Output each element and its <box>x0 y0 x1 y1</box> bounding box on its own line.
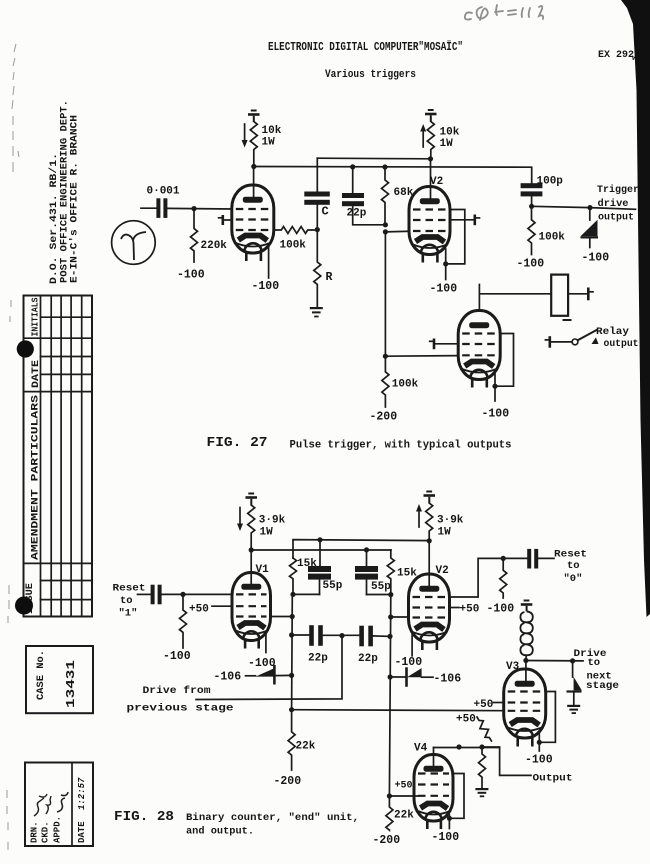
wire rail A to V2 anode <box>317 157 430 160</box>
node reset-0 <box>501 556 506 561</box>
wire 100p stem <box>531 195 533 206</box>
V1 cathode <box>238 623 265 628</box>
resistor 220k grid leak <box>191 209 198 262</box>
node right column top <box>388 592 393 597</box>
node V2 anode <box>427 538 432 543</box>
node divider top <box>479 744 484 749</box>
wire trigger output <box>532 206 636 209</box>
wire V2 cathode lead <box>445 249 447 280</box>
svg-text:"0": "0" <box>564 573 583 585</box>
wire reset-0 out <box>539 557 555 559</box>
svg-text:and output.: and output. <box>186 826 254 838</box>
resistor 3.9k 1W (V2 anode load) <box>426 503 433 541</box>
node V3 drive <box>383 354 388 359</box>
svg-text:100k: 100k <box>280 240 307 252</box>
svg-text:3·9k: 3·9k <box>437 515 464 527</box>
capacitor reset-0 <box>527 549 538 569</box>
svg-text:E-IN-C's OFFICE R. BRANCH: E-IN-C's OFFICE R. BRANCH <box>69 115 81 283</box>
svg-text:w: w <box>632 54 637 63</box>
svg-text:AMENDMENT PARTICULARS: AMENDMENT PARTICULARS <box>30 395 42 560</box>
V3 grid row 1 <box>508 690 542 692</box>
capacitor reset-1 <box>151 585 162 605</box>
left edge scan marks <box>7 44 19 850</box>
wire left column <box>291 595 294 710</box>
svg-text:to: to <box>567 560 580 572</box>
APPD signature <box>57 792 68 812</box>
svg-text:FIG. 27: FIG. 27 <box>207 436 268 451</box>
wire 22p row right <box>373 635 390 638</box>
V3 grid row 3 <box>508 710 542 712</box>
V1 grid row 1 <box>236 208 270 210</box>
V4 heater <box>425 812 441 820</box>
node V2 grid join <box>388 614 393 619</box>
resistor 3.9k 1W (V1 anode load) <box>248 505 255 550</box>
svg-text:FIG. 28: FIG. 28 <box>114 810 174 825</box>
wire rail A' cross-coupling to V2 anode <box>293 540 429 558</box>
V1 heater pins <box>246 253 261 262</box>
amendment table frame <box>24 296 93 617</box>
svg-text:-100: -100 <box>432 831 460 844</box>
V1 bias tap symbol <box>219 215 232 225</box>
resistor reset-0 leak <box>500 558 507 598</box>
wire long drive to V3 grid <box>292 710 504 711</box>
svg-text:3·9k: 3·9k <box>259 515 286 527</box>
svg-text:-106: -106 <box>214 671 242 684</box>
wire +50 V3 <box>494 702 504 704</box>
node V3 cathode <box>492 384 497 389</box>
wire V2 output to reset-0 <box>450 558 528 597</box>
resistor 22k left tail <box>288 710 295 770</box>
node X1 <box>315 227 320 232</box>
svg-text:22p: 22p <box>358 653 378 665</box>
svg-text:22p: 22p <box>308 653 328 665</box>
node V4 cathode <box>447 816 452 821</box>
node input <box>191 206 196 211</box>
node V1 anode <box>251 164 256 169</box>
trigger glyph inside circle <box>121 232 146 260</box>
svg-text:INITIALS: INITIALS <box>31 297 41 337</box>
svg-text:previous stage: previous stage <box>127 703 234 715</box>
svg-text:stage: stage <box>586 680 619 692</box>
svg-text:10k: 10k <box>262 125 282 137</box>
svg-text:-100: -100 <box>482 408 510 421</box>
node trigger output <box>587 205 592 210</box>
capacitor 22p right <box>359 626 373 647</box>
wire V4 anode run <box>434 747 500 749</box>
DRN signature <box>34 794 47 816</box>
contact lever <box>578 330 597 341</box>
svg-text:"1": "1" <box>119 608 138 620</box>
V1 anode bar <box>241 584 261 590</box>
V3 grid row 2 <box>462 343 496 345</box>
V2 anode bar <box>420 198 440 204</box>
triode V3 envelope (output valve) <box>458 311 500 380</box>
capacitor 55p left <box>308 566 331 580</box>
V4 grid row 1 <box>418 772 449 774</box>
HT supply symbol (V2 branch) <box>424 491 436 503</box>
resistor 10k 1W (V2 anode load) <box>427 122 434 159</box>
contact arrowhead <box>592 337 599 344</box>
ground under divider <box>475 788 488 797</box>
node V2 cathode <box>443 261 448 266</box>
punch hole bottom <box>15 597 33 615</box>
relay contact fixed tap symbol <box>545 336 549 348</box>
wire to V2 grid <box>391 616 409 618</box>
svg-text:+50: +50 <box>474 699 494 711</box>
input wire left <box>141 207 156 209</box>
V2 grid row 2 <box>413 219 446 221</box>
V1 grid row 3 <box>236 229 270 231</box>
wire to contact <box>550 341 572 343</box>
wire V3 cathode lead <box>494 374 496 402</box>
punch hole top <box>17 340 34 357</box>
current arrow (down) <box>242 124 248 148</box>
svg-text:V4: V4 <box>414 743 428 755</box>
V4 anode bar <box>424 766 444 772</box>
node drive junction <box>289 707 294 712</box>
resistor 10k 1W (V1 anode load) <box>250 122 257 167</box>
V3 heater pins <box>518 738 533 747</box>
svg-text:1W: 1W <box>440 138 454 150</box>
wire V4 grid <box>389 795 418 797</box>
svg-text:APPD.: APPD. <box>53 816 63 843</box>
diode -106 right <box>390 667 433 687</box>
svg-text:Trigger: Trigger <box>597 184 639 196</box>
svg-text:-100: -100 <box>163 650 191 663</box>
wire to drive next stage <box>526 660 583 662</box>
resistor diagonal to +50 <box>474 715 494 743</box>
wire rail B from V1 anode to 100p <box>254 167 532 184</box>
node 55p right top <box>364 547 369 552</box>
svg-text:22p: 22p <box>347 208 367 220</box>
wire C stems <box>316 158 318 229</box>
svg-text:DATE: DATE <box>31 360 42 388</box>
svg-text:10k: 10k <box>440 127 460 139</box>
svg-text:-100: -100 <box>525 754 553 767</box>
wire 22p row left <box>292 634 360 636</box>
right edge scan bar <box>621 0 650 617</box>
svg-text:-100: -100 <box>395 656 423 669</box>
current arrow (up) <box>416 504 422 527</box>
resistor output divider <box>479 747 486 788</box>
wire V4 screen loop <box>449 774 464 819</box>
V3 heater pins <box>472 379 487 388</box>
V3 anode bar <box>515 681 535 687</box>
wire V3 screen loop <box>539 692 555 743</box>
V1 grid row 2 <box>236 605 267 607</box>
svg-text:output: output <box>604 338 639 350</box>
V4 cathode <box>421 804 448 809</box>
wire +50 to V1 <box>212 605 232 607</box>
V1 grid row 1 <box>236 593 267 595</box>
wire V3 screen loop <box>495 334 514 387</box>
svg-text:EX 292: EX 292 <box>598 49 634 61</box>
resistor 100k coupling (V1 grid3) <box>274 227 317 234</box>
svg-text:DRN.: DRN. <box>30 821 40 843</box>
relay coil <box>551 275 568 316</box>
node V1 anode <box>249 547 254 552</box>
wire V2 anode stem <box>428 541 430 587</box>
wire V2 anode stem <box>430 159 432 200</box>
relay minus mark <box>563 319 572 321</box>
wire drive from previous stage <box>196 636 342 700</box>
svg-text:Binary counter, "end" unit,: Binary counter, "end" unit, <box>186 812 359 824</box>
triode V3 envelope <box>504 669 546 738</box>
triode V4 envelope <box>414 755 453 822</box>
V1 grid row 3 <box>236 615 267 617</box>
triode V2 envelope <box>409 187 450 255</box>
svg-text:1W: 1W <box>262 137 276 149</box>
V3 heater <box>470 370 487 379</box>
wire reset input <box>138 593 151 595</box>
wire V4 cathode lead <box>448 815 450 829</box>
wire to V1 grid <box>271 616 293 618</box>
svg-text:-106: -106 <box>434 673 462 686</box>
svg-text:to: to <box>120 595 133 607</box>
diode clamp (trigger output) <box>581 208 599 248</box>
node 22p top <box>350 164 355 169</box>
node 68k bottom <box>383 222 388 227</box>
wire V2 cathode lead <box>411 635 413 656</box>
wire 55p right stems <box>366 550 368 595</box>
svg-text:-100: -100 <box>517 258 545 271</box>
svg-text:22k: 22k <box>394 810 414 822</box>
V1 cathode <box>238 236 267 241</box>
diode -106 left <box>246 665 292 685</box>
svg-text:+50: +50 <box>456 714 476 726</box>
triode V1 envelope <box>232 185 274 253</box>
V3 heater <box>516 729 533 738</box>
wire output tap <box>482 747 531 775</box>
handwritten pencil note c84-112 <box>465 5 543 20</box>
V4 heater pins <box>427 821 441 830</box>
svg-text:Drive from: Drive from <box>143 685 211 697</box>
node V1 grid join <box>290 614 295 619</box>
capacitor 22p left <box>309 625 323 646</box>
V3 grid row 2 <box>508 701 542 703</box>
svg-text:15k: 15k <box>397 568 417 580</box>
ground under R <box>310 307 323 317</box>
wire 22p stems <box>353 167 386 225</box>
svg-text:220k: 220k <box>201 240 228 252</box>
svg-text:-100: -100 <box>248 657 276 670</box>
svg-text:-200: -200 <box>370 411 398 424</box>
wire 15k/55p right bottom join <box>367 594 391 596</box>
resistor 15k left <box>290 558 297 594</box>
V3 anode bar <box>469 322 489 328</box>
node diode right <box>388 674 393 679</box>
CKD signature <box>46 796 51 814</box>
wire drive to V3 grid <box>385 355 458 358</box>
V3 grid row 1 <box>462 332 496 334</box>
svg-text:100p: 100p <box>537 176 564 188</box>
node V3 cathode <box>537 740 542 745</box>
V3 cathode <box>510 720 539 725</box>
svg-text:-100: -100 <box>487 603 515 616</box>
node reset-1 <box>180 592 185 597</box>
current arrow (up) <box>420 124 426 147</box>
node V2 grid junction <box>383 229 388 234</box>
svg-text:-100: -100 <box>430 283 458 296</box>
diode next stage <box>567 661 582 705</box>
wire V3 cathode lead <box>538 734 540 752</box>
svg-text:22k: 22k <box>296 741 316 753</box>
HT supply symbol (V1 branch) <box>246 493 258 505</box>
node drive next <box>570 658 575 663</box>
V3 cathode <box>465 362 494 367</box>
wire +50 V2 <box>450 607 460 609</box>
wire V3 anode to relay <box>479 285 551 311</box>
wire column to V3 grid node <box>384 232 386 356</box>
V1 grid row 2 <box>236 218 270 220</box>
V2 heater pins <box>422 642 437 651</box>
V1 anode bar <box>243 197 263 203</box>
svg-text:CKD.: CKD. <box>41 821 51 843</box>
wire 55p left stems <box>319 540 322 595</box>
capacitor 55p right <box>355 566 378 580</box>
V4 grid row 2 <box>418 783 449 785</box>
wire V1 cathode lead <box>265 634 267 653</box>
wire 15k/55p left bottom join <box>293 593 320 595</box>
svg-text:1W: 1W <box>260 527 274 539</box>
V2 bias tap symbol <box>450 215 480 226</box>
input symbol circle <box>112 221 156 265</box>
node 55p left top <box>317 537 322 542</box>
HT supply symbol over R 10k (V1 branch) <box>248 110 260 122</box>
relay supply tap symbol <box>588 288 593 301</box>
wire right column <box>389 595 390 796</box>
wire relay to supply tap <box>568 293 587 295</box>
V2 heater <box>421 245 438 254</box>
svg-text:-100: -100 <box>177 269 205 282</box>
svg-text:-100: -100 <box>582 252 610 265</box>
node diode left <box>289 673 294 678</box>
capacitor 22p <box>342 193 364 206</box>
resistor 100k trigger load <box>528 206 535 254</box>
V2 grid row 3 <box>413 230 446 232</box>
contact pivot circle <box>572 339 578 345</box>
V2 grid row 2 <box>413 606 446 608</box>
resistor 15k right <box>387 550 394 595</box>
svg-text:ELECTRONIC DIGITAL COMPUTER"MO: ELECTRONIC DIGITAL COMPUTER"MOSAÏC" <box>268 41 463 54</box>
capacitor 0.001 input <box>156 198 167 218</box>
svg-text:Various triggers: Various triggers <box>325 69 416 81</box>
node left column top <box>290 592 295 597</box>
svg-text:-200: -200 <box>373 834 401 847</box>
svg-text:55p: 55p <box>371 581 391 593</box>
approvals box <box>25 763 93 847</box>
case number box <box>26 646 93 713</box>
node V2 anode <box>428 156 433 161</box>
node trigger <box>529 204 534 209</box>
svg-text:Output: Output <box>533 773 573 785</box>
V2 heater pins <box>423 254 438 263</box>
wire V4 anode stem <box>433 748 435 768</box>
V2 heater <box>420 632 437 641</box>
V2 anode bar <box>419 586 439 592</box>
svg-text:DATE: DATE <box>77 821 87 843</box>
resistor 68k <box>382 167 389 225</box>
V2 grid row 3 <box>413 616 446 618</box>
V1 heater <box>243 631 259 639</box>
node 22p row right <box>387 634 392 639</box>
V4 grid row 3 <box>418 795 449 797</box>
svg-text:1W: 1W <box>438 527 452 539</box>
V3 grid row 3 <box>462 354 496 356</box>
svg-text:-100: -100 <box>252 280 280 293</box>
svg-text:to: to <box>588 657 601 669</box>
wire cap to V1 grid <box>162 593 232 595</box>
node V4 grid <box>387 793 392 798</box>
V2 cathode <box>416 237 445 242</box>
resistor 100k tail <box>382 356 389 407</box>
V2 grid row 1 <box>413 596 446 598</box>
node 22p row mid <box>339 633 344 638</box>
svg-text:CASE No.: CASE No. <box>35 650 47 700</box>
svg-text:100k: 100k <box>392 379 419 391</box>
V1 heater <box>244 243 261 252</box>
svg-text:100k: 100k <box>539 232 566 244</box>
node V4 anode <box>456 744 461 749</box>
svg-text:1:2:57: 1:2:57 <box>77 777 87 810</box>
wire V2 screen loop <box>446 210 465 264</box>
svg-text:Pulse trigger, with typical ou: Pulse trigger, with typical outputs <box>290 440 512 452</box>
svg-text:55p: 55p <box>323 580 343 592</box>
wire cap to V1 grid <box>168 207 232 210</box>
svg-text:Relay: Relay <box>596 326 630 338</box>
capacitor 100p <box>521 183 543 196</box>
svg-text:-200: -200 <box>274 775 302 788</box>
svg-text:Reset: Reset <box>554 549 587 561</box>
resistor 22k right tail <box>386 796 393 830</box>
V2 cathode <box>415 625 444 630</box>
V1 heater pins <box>245 640 259 649</box>
inductor coil <box>520 611 532 655</box>
svg-text:+50: +50 <box>395 781 413 792</box>
svg-text:output: output <box>598 212 634 224</box>
svg-text:+50: +50 <box>460 604 480 616</box>
node 68k top <box>382 164 387 169</box>
triode V1 envelope <box>232 573 271 641</box>
ground under next-stage diode <box>567 705 580 714</box>
svg-text:R: R <box>326 271 333 284</box>
node V3 anode <box>523 658 528 663</box>
svg-text:drive: drive <box>598 198 629 210</box>
resistor R <box>314 230 321 307</box>
node 22p row left <box>289 632 294 637</box>
wire to V2 grid <box>385 230 409 233</box>
capacitor C <box>304 192 330 205</box>
HT supply symbol over R 10k (V2 branch) <box>425 109 437 121</box>
V3 bias tap symbol <box>430 339 459 350</box>
wire V1 cathode lead <box>268 247 270 278</box>
HT supply symbol (coil branch) <box>521 600 533 612</box>
triode V2 envelope <box>409 574 450 642</box>
svg-text:C: C <box>322 205 329 219</box>
resistor grid leak (reset-1) <box>180 594 187 648</box>
svg-text:13431: 13431 <box>64 660 78 708</box>
wire V1 anode stem <box>253 167 255 199</box>
V2 grid row 1 <box>413 208 446 210</box>
current arrow (down) <box>237 508 243 532</box>
wire coil to V3 anode <box>525 655 527 682</box>
svg-text:+50: +50 <box>189 604 209 616</box>
wire rail B' V1 anode cross-coupling <box>251 549 391 551</box>
svg-text:0·001: 0·001 <box>147 186 180 198</box>
wire V1 anode stem <box>250 550 252 586</box>
svg-text:Reset: Reset <box>113 583 146 595</box>
